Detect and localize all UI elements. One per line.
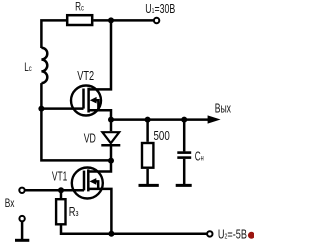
common bar under input terminal [15, 239, 29, 242]
svg-text:VT1: VT1 [52, 170, 67, 184]
capacitor Cn [177, 153, 191, 158]
svg-text:VD: VD [84, 132, 96, 146]
terminal U1 circle [154, 18, 159, 23]
diode VD cathode bar [101, 144, 120, 147]
inductor Lc [41, 48, 47, 83]
wire input lower terminal stem [21, 222, 24, 241]
wire R3 top lead [60, 190, 63, 198]
svg-text:Rз: Rз [69, 206, 79, 220]
resistor Rc [67, 15, 92, 25]
wire VD cathode down to VT1 drain [88, 145, 111, 171]
junction dot output rail / 500 [145, 117, 151, 123]
label 500 [154, 129, 171, 144]
VT1 substrate arrow [90, 178, 97, 185]
label U1=30V [145, 2, 175, 16]
wire 500 bottom lead [146, 169, 149, 185]
svg-text:Вых: Вых [215, 102, 232, 116]
wire 500 top lead [146, 120, 149, 142]
svg-text:500: 500 [154, 129, 171, 144]
junction dot output rail / VD [108, 117, 114, 123]
label U2=-5V [218, 228, 247, 242]
output arrowhead [208, 115, 221, 123]
label VT1 [52, 170, 67, 184]
terminal Vkh input circle [19, 188, 24, 193]
svg-text:Rс: Rс [75, 1, 84, 14]
resistor 500 [142, 143, 153, 168]
wire input gate lead [25, 189, 84, 192]
label R3 [69, 206, 79, 220]
resistor R3 [56, 199, 65, 224]
svg-text:U1=30В: U1=30В [145, 2, 175, 16]
wire Cn bottom lead [183, 159, 186, 185]
svg-text:Вх: Вх [5, 198, 15, 211]
node C junction dot [108, 158, 114, 164]
wire top-left corner from Lc up and across to Rc [41, 20, 66, 48]
output rail wire [111, 118, 209, 121]
label Lc [24, 62, 32, 75]
node junction dot at top of drain column [108, 17, 114, 23]
transistor VT1 [72, 168, 112, 234]
diode VD anode lead [110, 120, 113, 132]
label Vkh (input) [5, 198, 15, 211]
terminal input lower circle [19, 216, 24, 221]
label Cn [195, 150, 204, 164]
common bar under Cn [176, 184, 192, 187]
junction dot input / R3 [58, 187, 64, 193]
terminal U2 circle [207, 231, 212, 236]
diode VD triangle [102, 132, 119, 143]
svg-text:U2=-5В: U2=-5В [218, 228, 247, 242]
svg-text:VT2: VT2 [77, 70, 94, 84]
svg-text:Lс: Lс [24, 62, 32, 75]
wire left rail from Lc down to node C level and across [41, 83, 111, 160]
VT2 substrate arrow [90, 97, 97, 104]
label Vykh (output) [215, 102, 232, 116]
red mark at right edge [248, 232, 255, 239]
label VT2 [77, 70, 94, 84]
label Rc [75, 1, 84, 14]
junction dot output rail / Cn [181, 117, 187, 123]
wire R3 bottom to bottom rail [61, 226, 207, 234]
wire VT2 gate lead [41, 107, 83, 110]
node B junction dot (Lc / VT2 gate) [38, 106, 44, 112]
wire Rc to U1 terminal, with junction [93, 19, 153, 22]
label VD [84, 132, 96, 146]
junction dot bottom rail / VT1 source [108, 231, 114, 237]
transistor VT2 [71, 20, 111, 119]
common bar under 500 [139, 184, 159, 187]
wire Cn top lead [183, 120, 186, 152]
